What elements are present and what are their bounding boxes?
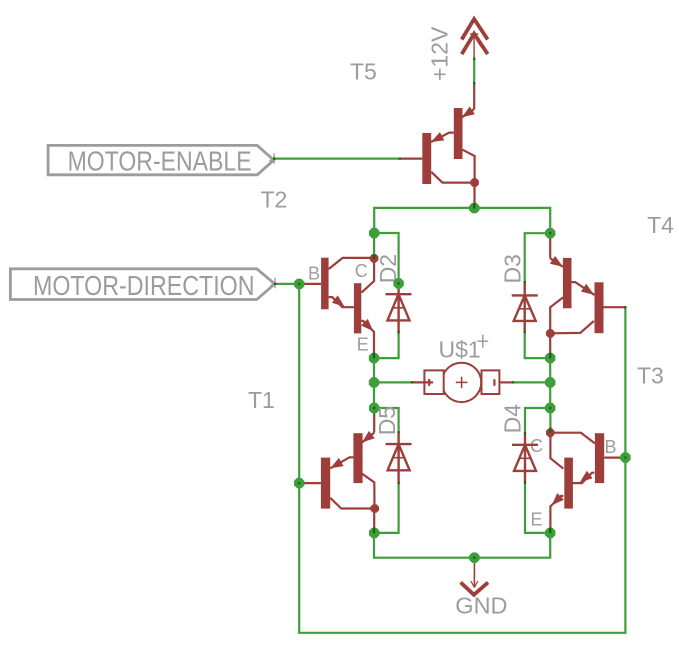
label D5 — [374, 406, 400, 435]
net flag MOTOR-ENABLE — [48, 145, 274, 176]
wire: left motor column — [373, 358, 375, 408]
wire: MOTOR-ENABLE net to T5 base — [274, 158, 400, 160]
label E (T3 emitter) — [531, 509, 543, 529]
label T3 — [637, 363, 664, 389]
svg-text:T4: T4 — [647, 212, 674, 238]
wire: motor left terminal — [374, 381, 412, 383]
label +12V — [427, 26, 453, 81]
label GND — [455, 593, 507, 619]
svg-text:C: C — [355, 261, 368, 281]
wire: T2 collector net into junction — [373, 233, 375, 258]
net flag MOTOR-DIRECTION — [10, 269, 275, 301]
wire: MOTOR-DIRECTION net (left riser, bottom run, right riser to T4/T3 bases) — [275, 284, 626, 633]
label C (T3 collector) — [530, 436, 543, 456]
svg-text:D4: D4 — [500, 404, 526, 434]
svg-text:B: B — [308, 263, 320, 283]
wire: bottom ground bus — [374, 533, 550, 558]
wire: top bus node (T5 collector to T2/T4 collectors) — [374, 208, 550, 233]
wire: +12V supply to T5 emitter — [473, 59, 475, 84]
wire: right motor column — [549, 358, 551, 408]
wire: T4 collector node to D3 cathode — [525, 233, 551, 282]
wire: T2 collector node to D2 cathode — [374, 233, 398, 283]
label U$1 — [439, 335, 489, 363]
svg-text:E: E — [531, 509, 543, 529]
svg-text:U$1: U$1 — [439, 337, 481, 363]
svg-text:B: B — [605, 437, 617, 457]
label D4 — [500, 404, 526, 434]
transistor T2 (NPN darlington) — [299, 254, 378, 358]
wire: D5 anode to T1 emitter node — [374, 483, 399, 533]
wire: T3 collector net into junction — [549, 408, 551, 433]
label T5 — [350, 59, 377, 85]
wire: D2 anode to left motor node — [374, 332, 399, 358]
label C (T2 collector) — [355, 261, 368, 281]
svg-text:GND: GND — [455, 593, 507, 619]
svg-text:T1: T1 — [248, 387, 275, 413]
transistor T1 (PNP darlington) — [299, 408, 379, 533]
transistor T5 (PNP darlington) — [400, 83, 479, 208]
svg-text:T5: T5 — [350, 59, 377, 85]
label B (T2 base) — [308, 263, 320, 283]
svg-text:T2: T2 — [261, 187, 288, 213]
label D2 — [375, 254, 401, 283]
label D3 — [500, 254, 526, 283]
label B (T3 base) — [605, 437, 617, 457]
diode D5 — [386, 432, 412, 483]
label T2 — [261, 187, 288, 213]
label T1 — [248, 387, 275, 413]
svg-text:D3: D3 — [500, 254, 526, 283]
label T4 — [647, 212, 674, 238]
wire: motor right terminal — [513, 381, 550, 383]
motor U$1 — [412, 363, 513, 402]
supply +12V symbol — [462, 19, 488, 59]
svg-text:E: E — [357, 334, 369, 354]
wire: left motor node to D5 cathode — [374, 408, 399, 432]
transistor T4 (PNP darlington, mirrored) — [546, 233, 625, 358]
svg-text:+12V: +12V — [427, 26, 453, 81]
diode D2 — [386, 283, 412, 332]
wire: right motor node to D4 cathode — [525, 408, 550, 433]
transistor T3 (NPN darlington, mirrored) — [546, 428, 625, 533]
wire: D4 anode to T3 emitter node — [525, 483, 550, 533]
svg-text:MOTOR-DIRECTION: MOTOR-DIRECTION — [33, 270, 255, 301]
pin-end markers (dark green) — [273, 58, 627, 559]
svg-text:MOTOR-ENABLE: MOTOR-ENABLE — [68, 145, 252, 176]
label E (T2 emitter) — [357, 334, 369, 354]
ground symbol GND — [461, 558, 488, 595]
wire: D3 anode to right motor node — [525, 332, 551, 358]
diode D3 — [512, 282, 538, 332]
diode D4 — [512, 433, 538, 482]
svg-text:T3: T3 — [637, 363, 664, 389]
